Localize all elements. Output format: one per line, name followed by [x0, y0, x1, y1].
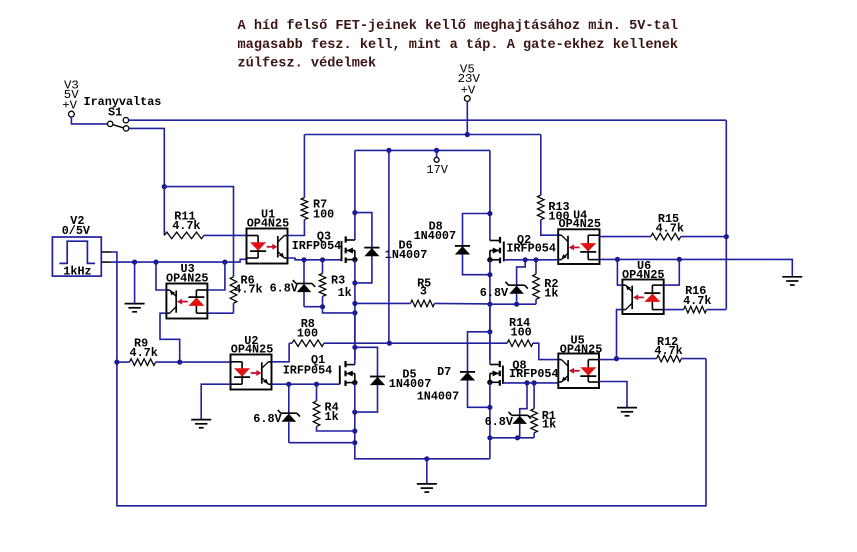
wire U5 BR to ground: [599, 382, 627, 408]
wire V3 to S1 common: [71, 117, 107, 124]
node D5 bottom: [352, 410, 357, 415]
svg-text:4.7k: 4.7k: [234, 283, 262, 297]
wire right vertical x=726 (rail A down to R16): [725, 120, 727, 309]
node R3 return: [320, 304, 325, 309]
svg-text:magasabb fesz. kell, mint a tá: magasabb fesz. kell, mint a táp. A gate-…: [238, 38, 679, 53]
node U6 TR riser: [677, 257, 682, 262]
wire V2- ground bus: [111, 259, 246, 262]
wire center vertical (17V rail down): [388, 150, 390, 343]
resistor R1 1k: [531, 383, 556, 438]
resistor R16 4.7k: [664, 284, 727, 313]
optocoupler U3 OP4N25: [166, 262, 208, 319]
ground center bottom: [417, 459, 437, 492]
mosfet Q1 IRFP054: [283, 353, 358, 386]
svg-text:100: 100: [313, 207, 334, 221]
zener 6.8V (Q1 gate): [253, 384, 354, 443]
svg-text:4.7k: 4.7k: [683, 294, 711, 308]
node zener tap gate bus Q8: [524, 380, 529, 385]
node center vertical top: [386, 148, 391, 153]
diode D6 1N4007: [355, 213, 427, 283]
node U5/U6/R12 junction: [614, 356, 619, 361]
wire U6 TL pin riser: [617, 259, 622, 285]
svg-text:1k: 1k: [325, 410, 339, 424]
svg-text:0/5V: 0/5V: [62, 224, 91, 238]
optocoupler U2 OP4N25: [231, 334, 274, 389]
node D8 bottom: [487, 272, 492, 277]
node zener bottom Q1: [352, 440, 357, 445]
wire U3 bottom-right pin to R6: [207, 312, 233, 314]
wire U3 top-left pin to bus: [156, 262, 166, 290]
node D6 top tap: [352, 210, 357, 215]
optocoupler U6 OP4N25: [622, 259, 664, 314]
resistor R7 100: [301, 135, 334, 226]
resistor R14 100: [507, 316, 558, 359]
svg-text:S1: S1: [108, 106, 122, 120]
svg-text:IRFP054: IRFP054: [283, 364, 333, 378]
wire U3 top-right pin to bus: [207, 262, 225, 290]
svg-text:+V: +V: [62, 98, 77, 112]
wire R9 node to U2 anode: [180, 361, 231, 363]
annotation text line 3: [238, 56, 377, 71]
mosfet Q3 IRFP054: [292, 229, 358, 263]
svg-text:6.8V: 6.8V: [485, 415, 514, 429]
svg-text:1kHz: 1kHz: [63, 265, 91, 279]
zener 6.8V (Q8 gate): [485, 383, 531, 438]
switch S1 (Iranyvaltas): [84, 95, 162, 131]
svg-text:100: 100: [297, 326, 318, 340]
node zener/R1 bus on column: [487, 435, 492, 440]
svg-text:1N4007: 1N4007: [417, 390, 459, 404]
wire left column top (bridge top to Q3 drain): [354, 150, 356, 240]
node D6 bottom: [352, 280, 357, 285]
voltage source V5 +V terminal: [458, 63, 481, 102]
wire U2 collector to R8: [272, 343, 290, 362]
resistor R5 3: [355, 277, 490, 307]
node 17V rail to gate resistor rail: [387, 341, 392, 346]
wire Q3 source down column: [354, 260, 356, 360]
wire Q2 source down column: [489, 260, 491, 360]
svg-text:100: 100: [511, 325, 532, 339]
wire S1 node across and down to ground bus / R6: [164, 187, 233, 277]
svg-text:1N4007: 1N4007: [385, 248, 427, 262]
node R4 tap gate bus Q1: [314, 382, 319, 387]
node zener/R3 return: [352, 310, 357, 315]
wire U6 TR pin riser: [664, 259, 680, 285]
node zener return: [514, 302, 519, 307]
wire Q8 gate bus to U5: [503, 382, 558, 384]
diode D7 1N4007: [417, 332, 490, 408]
resistor R8 100: [289, 317, 389, 347]
wire right column top (bridge top to Q2 drain): [489, 150, 491, 240]
svg-text:3: 3: [420, 285, 427, 299]
wire zener/R3 return to column: [304, 307, 355, 313]
resistor R15 4.7k: [600, 212, 727, 240]
node D7 top tap: [487, 329, 492, 334]
optocoupler U5 OP4N25: [558, 334, 602, 389]
node R5 right / zener bus: [487, 302, 492, 307]
svg-text:IRFP054: IRFP054: [509, 367, 559, 381]
wire U1 emitter to gate bus: [288, 258, 342, 260]
ground under U5: [617, 408, 637, 416]
svg-text:4.7k: 4.7k: [172, 219, 200, 233]
wire Q2 gate bus to U4 emitter: [504, 259, 558, 261]
svg-text:1k: 1k: [338, 286, 352, 300]
wire U1 collector to R7: [288, 226, 305, 236]
node R5 left: [352, 301, 357, 306]
zener 6.8V (Q3 gate): [270, 260, 316, 307]
svg-text:1k: 1k: [544, 286, 558, 300]
wire V5 down to rail B: [466, 102, 468, 135]
wire rail A (S1 upper throw to right column): [129, 119, 727, 121]
node R3 tap gate bus Q3: [320, 257, 325, 262]
node 17V tap: [434, 148, 439, 153]
svg-text:6.8V: 6.8V: [480, 286, 509, 300]
wire U6 BL pin down to U5/R12 node: [617, 310, 623, 359]
node R2 tap gate bus Q2: [533, 257, 538, 262]
node zener tap gate bus Q2: [523, 257, 528, 262]
wire zener/R1 return bus: [490, 437, 534, 439]
svg-text:OP4N25: OP4N25: [560, 343, 602, 357]
node S1 lower: [162, 184, 167, 189]
wire Q8 source down column to bottom bus: [489, 382, 491, 459]
node zener return Q8: [515, 435, 520, 440]
svg-text:A híd felső FET-jeinek kellő m: A híd felső FET-jeinek kellő meghajtásáh…: [238, 19, 679, 34]
svg-text:D7: D7: [437, 365, 451, 379]
node zener tap gate bus Q3: [301, 257, 306, 262]
node D5 top tap: [352, 345, 357, 350]
annotation text line 1: [238, 19, 679, 34]
resistor R6 4.7k: [230, 273, 262, 313]
wire rail B (V5 supply to R7/R13): [305, 134, 541, 136]
pulse source V2: [52, 214, 111, 278]
wire U4 collector bus to right ground: [600, 259, 793, 276]
svg-text:1N4007: 1N4007: [414, 229, 456, 243]
node R4 bottom: [352, 428, 357, 433]
node R9/U3/U2 junction: [177, 360, 182, 365]
svg-text:6.8V: 6.8V: [270, 282, 299, 296]
svg-text:1k: 1k: [542, 418, 556, 432]
resistor R11 4.7k: [164, 187, 246, 239]
wire S1 lower throw down to node: [129, 128, 165, 186]
node bottom bus ground tap: [424, 456, 429, 461]
mosfet Q2 IRFP054: [487, 233, 556, 263]
node gnd bus tap: [132, 260, 137, 265]
annotation text line 2: [238, 38, 679, 53]
wire U3 bottom-left pin down to R9 node: [160, 313, 180, 362]
resistor R3 1k: [319, 260, 352, 307]
wire zener/R2 return bus to column: [490, 303, 536, 305]
wire V2+ tall left vertical to bottom rail: [111, 252, 706, 506]
resistor R9 4.7k: [117, 336, 180, 365]
optocoupler U1 OP4N25: [247, 208, 290, 264]
node R15 on right vertical: [724, 234, 729, 239]
node R9 left on tall vertical: [114, 360, 119, 365]
wire gate resistor rail: [389, 342, 507, 344]
svg-text:17V: 17V: [426, 163, 448, 177]
resistor R12 4.7k: [617, 335, 707, 362]
wire Q1 source down column to bottom bus: [355, 383, 490, 459]
node V5 on rail B: [465, 132, 470, 137]
ground under U2: [191, 420, 211, 428]
diode D5 1N4007: [355, 347, 431, 412]
svg-text:6.8V: 6.8V: [253, 412, 282, 426]
ground right: [782, 277, 802, 285]
svg-text:zúlfesz. védelmek: zúlfesz. védelmek: [238, 56, 377, 71]
node D7 bottom: [487, 405, 492, 410]
resistor R2 1k: [533, 260, 559, 304]
node zener tap gate bus Q1: [286, 382, 291, 387]
diode D8 1N4007: [414, 214, 490, 275]
wire U2 cathode to ground: [201, 384, 230, 419]
svg-text:IRFP054: IRFP054: [506, 242, 556, 256]
svg-text:Iranyvaltas: Iranyvaltas: [84, 95, 162, 109]
svg-text:IRFP054: IRFP054: [292, 239, 342, 253]
resistor R4 1k: [313, 384, 355, 431]
wire Q8 drain up column: [489, 304, 491, 364]
zener 6.8V (Q2 gate): [480, 260, 528, 304]
node U3 collector riser: [153, 260, 158, 265]
wire U2 emitter to Q1 gate bus: [272, 383, 340, 385]
terminal 17V: [426, 150, 448, 177]
ground under V2 bus: [125, 262, 145, 312]
resistor R13 100: [538, 135, 570, 236]
wire U5 TR to R12 node: [599, 359, 617, 361]
svg-text:4.7k: 4.7k: [130, 346, 158, 360]
mosfet Q8 IRFP054: [487, 359, 558, 386]
voltage source V3 +V terminal: [62, 79, 79, 118]
node U3 LED riser: [222, 260, 227, 265]
node R1 tap gate bus Q8: [532, 380, 537, 385]
wire Q1 drain up column: [354, 313, 356, 365]
node U6 TL riser: [615, 257, 620, 262]
optocoupler U4 OP4N25: [558, 208, 601, 264]
wire bridge top rail: [355, 149, 490, 151]
node D8 top tap: [487, 211, 492, 216]
